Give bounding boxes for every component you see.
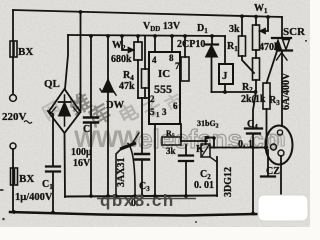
svg-text:SCR: SCR	[283, 26, 306, 38]
svg-text:470k: 470k	[259, 42, 280, 53]
svg-text:C: C	[83, 124, 90, 135]
svg-text:47k: 47k	[119, 81, 135, 92]
svg-text:7: 7	[175, 61, 180, 71]
svg-text:680k: 680k	[111, 54, 132, 65]
svg-text:3DG12: 3DG12	[223, 167, 234, 197]
svg-text:0. 1: 0. 1	[238, 139, 253, 150]
svg-text:CZ: CZ	[266, 166, 280, 177]
svg-text:3k: 3k	[166, 146, 176, 156]
svg-text:BX: BX	[18, 46, 33, 58]
svg-text:1: 1	[156, 111, 160, 119]
svg-text:6A/400V: 6A/400V	[281, 72, 292, 110]
svg-text:3AX31: 3AX31	[116, 158, 127, 187]
svg-text:31bG2: 31bG2	[197, 119, 219, 130]
svg-text:8: 8	[169, 53, 174, 63]
svg-text:6: 6	[173, 101, 178, 111]
svg-text:QL: QL	[44, 78, 60, 90]
svg-text:3k: 3k	[229, 24, 240, 35]
svg-text:BX: BX	[19, 173, 34, 185]
svg-text:2k(1k: 2k(1k	[241, 94, 266, 105]
svg-text:220V: 220V	[2, 111, 27, 123]
svg-text:1μ/400V: 1μ/400V	[15, 192, 53, 203]
svg-text:K: K	[196, 144, 204, 155]
svg-text:2CP10: 2CP10	[177, 39, 205, 50]
svg-text:J: J	[222, 70, 228, 82]
svg-text:VDD 13V: VDD 13V	[143, 21, 181, 33]
svg-text:0. 01: 0. 01	[194, 180, 214, 191]
svg-text:m: m	[266, 126, 286, 151]
svg-text:555: 555	[154, 82, 172, 96]
svg-text:qbx8.ch: qbx8.ch	[100, 191, 175, 210]
svg-text:IC: IC	[158, 68, 170, 80]
svg-text:2: 2	[150, 94, 155, 104]
svg-text:4: 4	[152, 55, 157, 65]
svg-text:100μ: 100μ	[71, 147, 92, 158]
svg-text:DW: DW	[106, 100, 125, 111]
svg-text:5: 5	[150, 107, 155, 117]
svg-text:3: 3	[162, 107, 167, 117]
svg-text:16V: 16V	[73, 158, 91, 169]
